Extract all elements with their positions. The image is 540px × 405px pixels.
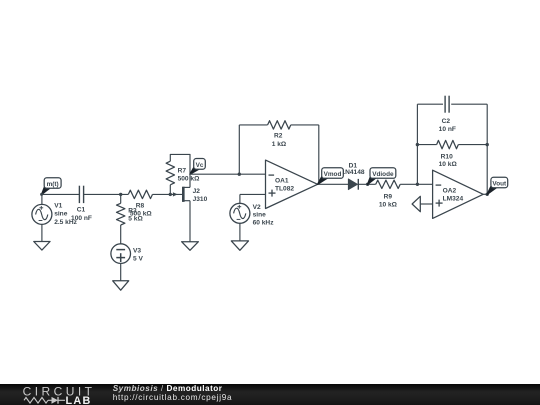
svg-text:10 nF: 10 nF xyxy=(439,126,456,133)
svg-text:OA2: OA2 xyxy=(443,187,457,194)
svg-text:1 kΩ: 1 kΩ xyxy=(272,141,287,148)
svg-text:V3: V3 xyxy=(133,247,141,254)
svg-text:J310: J310 xyxy=(193,196,208,203)
svg-text:1N4148: 1N4148 xyxy=(341,169,364,176)
svg-text:V2: V2 xyxy=(253,204,261,211)
svg-text:R8: R8 xyxy=(136,203,145,210)
svg-text:R3: R3 xyxy=(128,207,137,214)
svg-text:C2: C2 xyxy=(442,118,451,125)
svg-text:C1: C1 xyxy=(77,207,86,214)
svg-text:Symbiosis / Demodulator: Symbiosis / Demodulator xyxy=(113,384,223,393)
svg-text:sine: sine xyxy=(54,211,68,218)
svg-text:60 kHz: 60 kHz xyxy=(253,219,275,226)
svg-text:V1: V1 xyxy=(54,203,62,210)
svg-text:J2: J2 xyxy=(193,188,201,195)
svg-text:500 kΩ: 500 kΩ xyxy=(178,176,201,183)
svg-text:R7: R7 xyxy=(178,168,187,175)
svg-text:R2: R2 xyxy=(274,133,283,140)
svg-text:10 kΩ: 10 kΩ xyxy=(379,201,398,208)
svg-text:5 V: 5 V xyxy=(133,255,143,262)
svg-text:5 kΩ: 5 kΩ xyxy=(128,216,143,223)
svg-text:R9: R9 xyxy=(384,193,393,200)
svg-text:10 kΩ: 10 kΩ xyxy=(439,161,458,168)
svg-text:100 nF: 100 nF xyxy=(71,215,92,222)
svg-text:sine: sine xyxy=(253,212,267,219)
svg-text:LAB: LAB xyxy=(66,395,92,405)
svg-text:Vout: Vout xyxy=(492,180,507,187)
svg-text:OA1: OA1 xyxy=(275,178,289,185)
svg-text:http://circuitlab.com/cpejj9a: http://circuitlab.com/cpejj9a xyxy=(113,393,233,402)
svg-text:Vmod: Vmod xyxy=(324,171,342,178)
svg-text:m(t): m(t) xyxy=(47,181,59,188)
svg-text:R10: R10 xyxy=(441,153,453,160)
svg-text:LM324: LM324 xyxy=(443,195,464,202)
svg-text:Vdiode: Vdiode xyxy=(372,171,394,178)
svg-text:TL082: TL082 xyxy=(275,186,294,193)
svg-text:Vc: Vc xyxy=(196,162,204,169)
